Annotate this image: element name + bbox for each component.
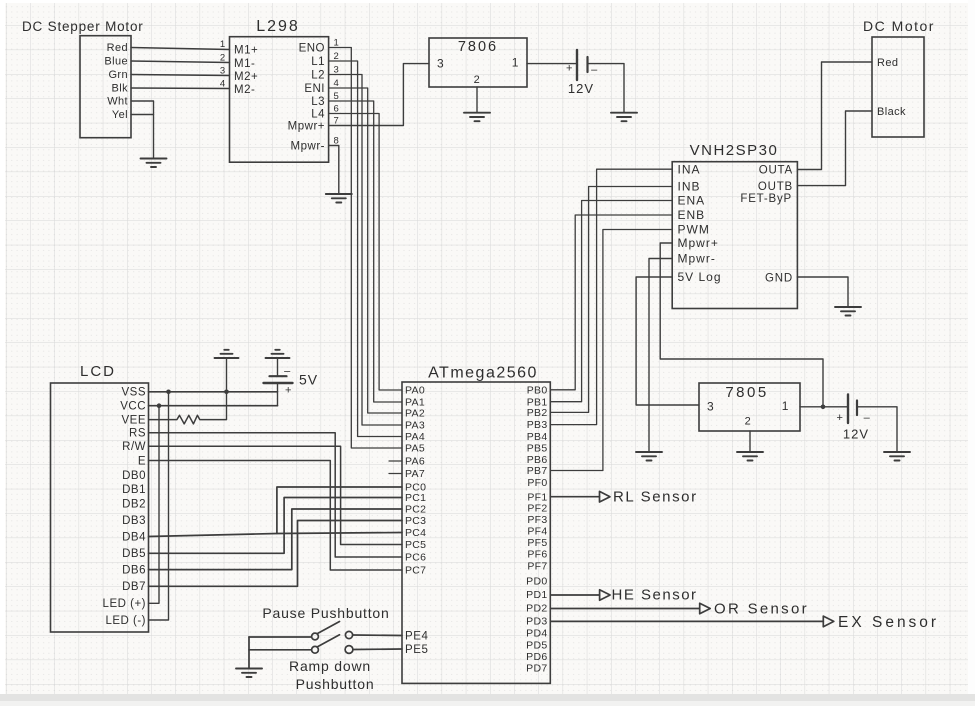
junction VSS / ground <box>224 390 229 395</box>
wire 7806 pin2 to ground <box>476 87 478 113</box>
wire L298 pin6 L4 to PA0 <box>329 114 402 391</box>
svg-text:DB4: DB4 <box>122 531 146 543</box>
wire Blue to M1- <box>131 61 230 63</box>
wire L298 pin2 L1 to PA4 <box>329 61 402 437</box>
wire PD2 to OR Sensor <box>550 608 699 610</box>
svg-text:PWM: PWM <box>678 223 710 237</box>
wire E to PC7 <box>149 461 403 571</box>
ground 7806 pin2 <box>464 113 490 122</box>
svg-text:M2+: M2+ <box>234 71 258 83</box>
svg-text:DB5: DB5 <box>122 548 146 560</box>
svg-text:INA: INA <box>678 162 701 176</box>
wire battery2 - to ground <box>857 407 897 452</box>
wire INB to PB2 <box>550 187 672 413</box>
svg-text:Mpwr-: Mpwr- <box>291 140 325 152</box>
svg-text:1: 1 <box>220 39 225 50</box>
svg-text:ENI: ENI <box>304 83 325 95</box>
svg-text:EX Sensor: EX Sensor <box>838 614 939 631</box>
svg-text:Wht: Wht <box>107 96 128 108</box>
ground (inverted) VSS <box>215 350 239 358</box>
svg-text:PF0: PF0 <box>527 477 547 489</box>
wire 5V battery + to VCC rail <box>277 383 279 406</box>
wire VNH GND to ground <box>797 277 848 307</box>
svg-text:Blk: Blk <box>112 83 129 95</box>
svg-text:PF3: PF3 <box>527 514 547 526</box>
svg-text:ENB: ENB <box>678 208 706 222</box>
svg-text:PF5: PF5 <box>527 537 547 549</box>
stub PA7 <box>389 473 402 475</box>
svg-text:DB6: DB6 <box>122 564 146 576</box>
svg-text:ENO: ENO <box>299 42 325 54</box>
wire OUTA to motor Red <box>797 62 872 170</box>
ground (inverted) 5V battery <box>266 350 290 358</box>
wire Pause to PE4 <box>353 634 402 637</box>
svg-text:PB4: PB4 <box>527 431 548 443</box>
svg-text:+: + <box>836 412 843 424</box>
svg-text:Ramp down: Ramp down <box>289 658 371 674</box>
wire 7806 pin1 to battery + <box>527 63 577 65</box>
svg-text:+: + <box>285 385 292 397</box>
svg-text:PD4: PD4 <box>526 628 547 640</box>
scan edge shading <box>0 0 975 3</box>
arrow EX Sensor <box>823 616 834 627</box>
svg-text:2: 2 <box>220 53 225 64</box>
wire LED(+) to VCC <box>149 406 160 604</box>
svg-text:1: 1 <box>782 399 789 413</box>
wire ENB to PB0 <box>550 215 672 390</box>
svg-text:PC5: PC5 <box>405 539 426 551</box>
wire Grn to M2+ <box>131 75 230 76</box>
driver U2 VNH2SP30 <box>672 162 797 309</box>
wire VSS rail <box>149 391 278 393</box>
svg-text:Black: Black <box>877 106 906 118</box>
wire VCC rail <box>149 405 278 407</box>
wire battery - to ground <box>588 64 625 113</box>
svg-text:VNH2SP30: VNH2SP30 <box>690 142 779 159</box>
svg-text:Pushbutton: Pushbutton <box>296 676 375 692</box>
svg-text:DB3: DB3 <box>122 515 146 527</box>
svg-text:PD6: PD6 <box>526 651 547 663</box>
wire L298 pin4 ENI to PA2 <box>329 88 402 413</box>
svg-text:12V: 12V <box>843 427 869 442</box>
wire 5V battery - to inverted ground <box>277 358 279 376</box>
wire PWM to PB7 <box>550 230 672 471</box>
pushbutton SW2 Ramp down <box>312 635 353 654</box>
svg-text:3: 3 <box>707 400 714 414</box>
wire DB6 to PC2 <box>149 509 403 570</box>
svg-text:PA3: PA3 <box>405 420 425 432</box>
svg-text:VCC: VCC <box>120 401 146 413</box>
svg-text:RL Sensor: RL Sensor <box>613 489 698 506</box>
wire Red to M1+ <box>131 48 230 50</box>
ground stepper common <box>141 159 167 168</box>
svg-text:Mpwr-: Mpwr- <box>678 252 716 266</box>
wire ENA to PB1 <box>550 201 672 402</box>
svg-text:Pause Pushbutton: Pause Pushbutton <box>262 605 389 621</box>
svg-text:DB1: DB1 <box>122 484 146 496</box>
svg-text:–: – <box>591 64 598 76</box>
svg-text:PF7: PF7 <box>527 561 547 573</box>
svg-text:PE4: PE4 <box>405 631 429 643</box>
svg-text:DB2: DB2 <box>122 499 146 511</box>
wire INA to PB3 <box>550 169 672 424</box>
svg-text:M1+: M1+ <box>234 44 258 56</box>
wire DB7 to PC3 <box>149 521 403 587</box>
svg-text:PA6: PA6 <box>405 456 425 468</box>
svg-text:PC2: PC2 <box>405 504 426 516</box>
junction VCC / LED(+) <box>157 403 162 408</box>
svg-text:Blue: Blue <box>104 56 128 68</box>
resistor contrast VEE <box>149 415 227 424</box>
svg-text:PA7: PA7 <box>405 468 425 480</box>
svg-text:FET-ByP: FET-ByP <box>740 193 792 205</box>
svg-text:2: 2 <box>745 416 752 428</box>
battery BT1 12V <box>577 50 588 80</box>
ground pushbuttons <box>236 669 262 678</box>
wire pushbutton ground rail <box>248 637 250 669</box>
arrow OR Sensor <box>700 603 711 614</box>
svg-text:PD3: PD3 <box>526 616 547 628</box>
svg-text:L2: L2 <box>311 69 325 81</box>
svg-text:L298: L298 <box>256 18 300 35</box>
ground VNH Mpwr- <box>636 452 662 461</box>
wire LED(-) to VSS <box>149 392 169 620</box>
ground battery bottom <box>884 452 910 461</box>
svg-text:Red: Red <box>107 42 128 54</box>
svg-text:Grn: Grn <box>108 69 128 81</box>
svg-text:PC3: PC3 <box>405 515 426 527</box>
svg-text:DC Stepper Motor: DC Stepper Motor <box>22 19 144 34</box>
svg-text:PC7: PC7 <box>405 565 426 577</box>
wire 5V Log to 7805 pin3 <box>636 277 699 405</box>
svg-text:PA0: PA0 <box>405 385 425 397</box>
motor DC Motor <box>872 37 924 137</box>
driver U1 L298 <box>230 37 329 163</box>
battery BT3 5V <box>264 376 293 383</box>
svg-text:M1-: M1- <box>234 58 255 70</box>
svg-text:L3: L3 <box>311 96 325 108</box>
svg-text:4: 4 <box>220 79 225 90</box>
wire L298 Mpwr+ to 7806 pin3 <box>329 64 429 126</box>
svg-text:M2-: M2- <box>234 84 255 96</box>
wire Ramp left to ground rail <box>249 649 312 651</box>
wire L298 pin1 ENO to PA5 <box>329 48 402 449</box>
wire Ramp to PE5 <box>353 648 402 651</box>
svg-text:2: 2 <box>474 74 481 86</box>
svg-text:PD2: PD2 <box>526 603 547 615</box>
wire Yel joins Wht <box>131 114 154 116</box>
pushbutton SW1 Pause <box>312 622 353 640</box>
wire 7805 pin1 to battery + <box>800 406 848 408</box>
wire DB4 branch to PC0 <box>277 487 402 534</box>
wire OUTB to motor Black <box>797 111 872 186</box>
svg-text:–: – <box>864 412 871 424</box>
svg-text:PF6: PF6 <box>527 549 547 561</box>
svg-text:PB5: PB5 <box>527 443 548 455</box>
arrow RL Sensor <box>600 491 611 502</box>
svg-text:5V: 5V <box>299 372 318 388</box>
svg-text:LCD: LCD <box>80 363 116 380</box>
svg-text:PC6: PC6 <box>405 552 426 564</box>
ground VNH GND <box>835 307 861 316</box>
svg-text:L1: L1 <box>311 56 325 68</box>
svg-text:Yel: Yel <box>112 109 128 121</box>
wire 7805 pin2 to ground <box>749 431 751 452</box>
wire Mpwr+ to 12V junction <box>660 243 823 407</box>
connector DC Stepper Motor <box>80 36 131 138</box>
ground battery top <box>611 113 637 122</box>
svg-text:Mpwr+: Mpwr+ <box>678 236 719 250</box>
svg-text:VEE: VEE <box>121 414 146 426</box>
svg-text:PA4: PA4 <box>405 431 425 443</box>
svg-text:ATmega2560: ATmega2560 <box>428 365 538 382</box>
svg-text:PB3: PB3 <box>527 419 548 431</box>
wire DB5 to PC1 <box>149 498 403 554</box>
svg-text:PD5: PD5 <box>526 640 547 652</box>
wire DB4 to PC4 <box>149 533 403 537</box>
svg-text:OR Sensor: OR Sensor <box>714 601 809 618</box>
svg-text:+: + <box>566 63 573 75</box>
svg-text:R/W: R/W <box>122 441 146 453</box>
wire R/W to PC5 <box>149 446 403 544</box>
svg-text:LED (+): LED (+) <box>103 598 146 610</box>
svg-text:INB: INB <box>678 180 701 194</box>
svg-text:7805: 7805 <box>725 384 768 401</box>
svg-text:7806: 7806 <box>458 39 498 55</box>
svg-text:PB7: PB7 <box>527 465 548 477</box>
wire RS to PC6 <box>149 433 403 557</box>
regulator 7806 <box>429 38 527 87</box>
svg-text:PD1: PD1 <box>526 589 547 601</box>
svg-text:PD0: PD0 <box>526 576 547 588</box>
svg-text:Red: Red <box>877 57 898 69</box>
display LCD <box>51 383 149 632</box>
ground L298 Mpwr- <box>326 194 352 203</box>
wire L298 Mpwr- to ground <box>329 146 339 195</box>
wire Wht to ground <box>131 101 154 159</box>
wire PD3 to EX Sensor <box>550 620 823 622</box>
junction VSS / LED(-) <box>166 390 171 395</box>
svg-text:VSS: VSS <box>121 387 146 399</box>
wire Blk to M2- <box>131 87 230 90</box>
battery BT2 12V <box>848 395 857 424</box>
svg-text:5V Log: 5V Log <box>678 270 722 284</box>
svg-text:3: 3 <box>437 57 444 71</box>
wire PD1 to HE Sensor <box>550 594 599 596</box>
wire Pause left to ground rail <box>249 636 312 638</box>
svg-text:RS: RS <box>129 428 146 440</box>
svg-text:DB7: DB7 <box>122 581 146 593</box>
mcu U3 ATmega2560 <box>402 382 550 683</box>
svg-text:PC4: PC4 <box>405 527 426 539</box>
svg-text:HE Sensor: HE Sensor <box>612 587 698 604</box>
svg-text:PA5: PA5 <box>405 443 425 455</box>
svg-text:L4: L4 <box>311 108 325 120</box>
junction 7805 output / Mpwr+ <box>821 405 826 410</box>
svg-text:3: 3 <box>220 66 225 77</box>
stub PA6 <box>389 460 402 462</box>
svg-text:E: E <box>138 455 146 467</box>
svg-text:PF4: PF4 <box>527 526 547 538</box>
arrow HE Sensor <box>600 590 611 601</box>
svg-text:ENA: ENA <box>678 194 706 208</box>
svg-text:PD7: PD7 <box>526 663 547 675</box>
svg-text:–: – <box>284 366 291 378</box>
svg-text:OUTA: OUTA <box>759 165 793 177</box>
svg-text:PB2: PB2 <box>527 407 548 419</box>
wire L298 pin3 L2 to PA3 <box>329 75 402 426</box>
svg-text:PF2: PF2 <box>527 503 547 515</box>
svg-text:PB0: PB0 <box>527 385 548 397</box>
svg-text:PE5: PE5 <box>405 644 429 656</box>
svg-text:PF1: PF1 <box>527 491 547 503</box>
svg-text:1: 1 <box>512 56 519 70</box>
svg-text:LED (-): LED (-) <box>105 615 146 627</box>
svg-text:DB0: DB0 <box>122 470 146 482</box>
wire PF1 to RL Sensor <box>550 496 599 498</box>
svg-text:Mpwr+: Mpwr+ <box>288 120 325 132</box>
wire L298 pin5 L3 to PA1 <box>329 101 402 402</box>
wire Mpwr- to ground <box>649 259 672 453</box>
svg-text:PC1: PC1 <box>405 492 426 504</box>
regulator 7805 <box>699 383 800 431</box>
svg-text:OUTB: OUTB <box>758 181 793 193</box>
svg-text:GND: GND <box>765 273 793 285</box>
svg-text:DC Motor: DC Motor <box>863 18 935 34</box>
svg-text:12V: 12V <box>568 81 594 96</box>
ground 7805 pin2 <box>737 452 763 461</box>
svg-text:PA2: PA2 <box>405 408 425 420</box>
wire VSS junction to inverted ground <box>226 358 228 420</box>
